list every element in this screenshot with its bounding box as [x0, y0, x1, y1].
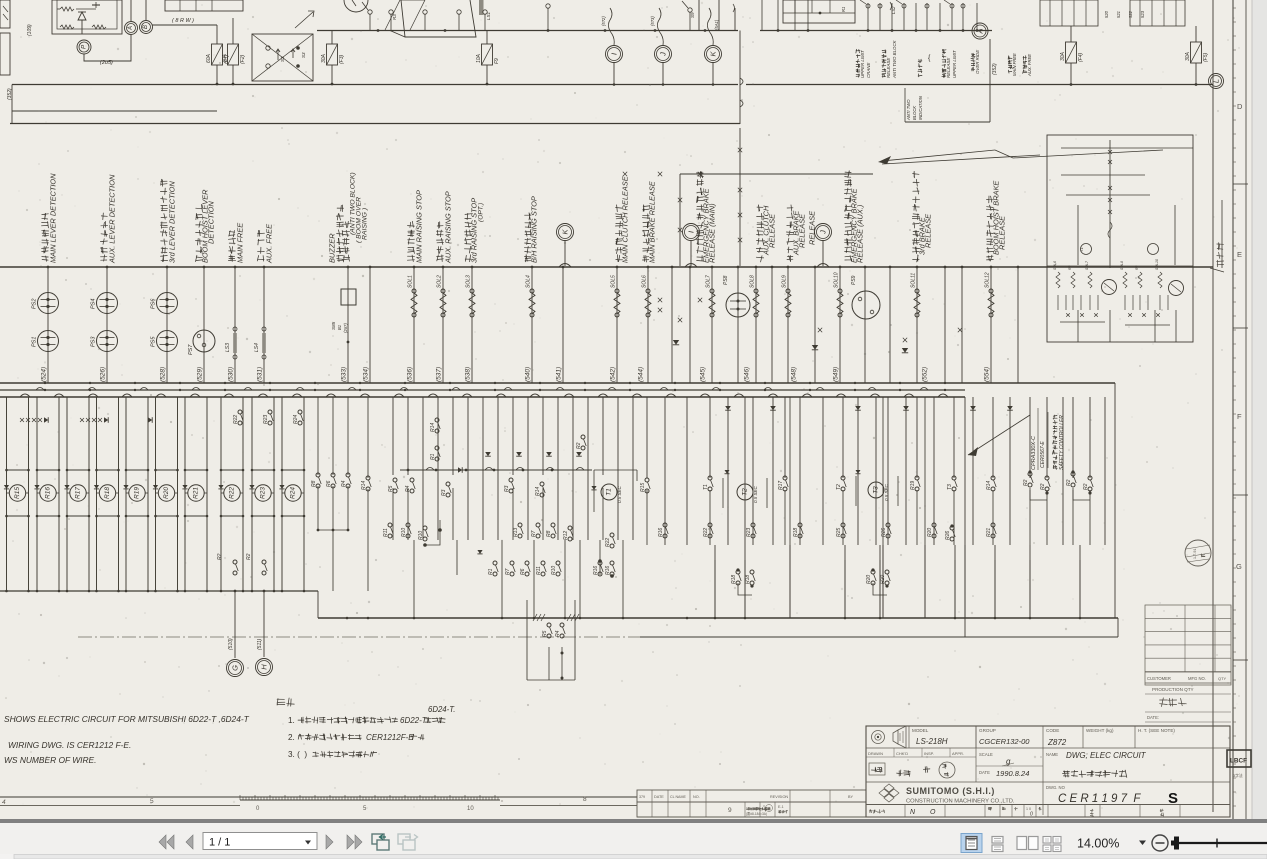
solenoid SOL4	[530, 289, 534, 293]
pressure switch PS8	[726, 293, 750, 317]
diode R20 flyback	[153, 485, 158, 489]
contact R10 low2	[423, 526, 427, 530]
contact R25 r2	[841, 523, 845, 527]
nav first-page button	[159, 835, 166, 849]
contact pair R20/R20	[871, 570, 875, 574]
contact R11 row3	[541, 561, 545, 565]
zone divider G/H	[1233, 659, 1248, 661]
diode mid D-b	[812, 345, 818, 350]
connector bus y618	[318, 617, 1118, 619]
top-right bus y31	[760, 30, 992, 32]
wire P loop	[84, 35, 131, 61]
solenoid SOL3	[470, 289, 474, 293]
contact R22 upper	[238, 410, 242, 414]
bus line y383	[0, 382, 1115, 384]
title block frame	[866, 726, 1230, 817]
subframe vertical x740 upper	[739, 128, 741, 266]
relay R20	[158, 485, 174, 501]
contact R5	[393, 478, 397, 482]
sub zigzag s1	[1056, 272, 1060, 288]
meter P	[77, 40, 91, 54]
contact R15 r	[645, 478, 649, 482]
nav prev-page button	[186, 835, 193, 849]
drop R6 column	[332, 530, 334, 591]
solenoid SOL7	[710, 289, 714, 293]
long bus y84	[12, 84, 738, 86]
contact R17 r	[783, 476, 787, 480]
hatch marks box	[533, 614, 537, 621]
contact T2 r	[841, 476, 845, 480]
subframe line y174	[680, 173, 873, 175]
diode cluster DA1	[20, 418, 24, 422]
page number box	[203, 833, 317, 850]
terminal A2	[972, 23, 988, 39]
switch LS-t5	[483, 10, 487, 14]
contact bank wires	[761, 0, 763, 31]
diodes row right y408	[725, 406, 731, 410]
pressure switch PS9	[852, 291, 880, 319]
diode T2	[725, 470, 730, 474]
relay block top right	[783, 0, 855, 23]
contact R4 b	[410, 478, 414, 482]
border tick marks	[1233, 7, 1236, 9]
diodes row y457	[485, 452, 491, 456]
svg-text:1 / 1: 1 / 1	[209, 837, 230, 849]
subframe vertical x680	[679, 174, 681, 266]
next-view icon (disabled)	[398, 834, 410, 844]
diode low mid	[477, 550, 482, 554]
bottom cells	[904, 805, 906, 818]
terminal I with pigtail	[608, 8, 614, 45]
contact R21 r2	[991, 523, 995, 527]
wire	[57, 8, 60, 10]
relay R17	[70, 485, 86, 501]
timer T1	[601, 484, 617, 500]
lower right verticals	[646, 397, 648, 478]
label col UPPER LIMIT RELEASE	[942, 74, 946, 78]
pressure switch PS1	[38, 331, 59, 352]
vertical wires upper band right	[647, 267, 649, 383]
border line y805 right	[500, 805, 637, 807]
diode R22 flyback	[218, 485, 223, 489]
switch S-t4	[457, 10, 461, 14]
wire F1/F2 tops	[216, 25, 218, 44]
contact R23 upper	[268, 410, 272, 414]
switch S-t1	[368, 10, 372, 14]
contact R2 H-col	[262, 560, 266, 564]
relay contact cluster G1	[1040, 0, 1098, 26]
terminal G	[227, 660, 244, 677]
sub box bus y266	[1047, 265, 1193, 267]
view mode continuous	[992, 837, 1003, 844]
limit switch LS4	[262, 327, 266, 331]
switch S-t2	[389, 10, 393, 14]
revision strip frame	[637, 790, 866, 802]
sumitomo logo diamond	[879, 784, 899, 802]
wire above A	[130, 0, 132, 21]
zoom dropdown caret	[1139, 841, 1146, 846]
buzzer S85 box	[341, 289, 356, 305]
label col ANTI TWO BLOCK RELEASE	[882, 73, 886, 77]
bus line y390	[0, 389, 965, 391]
sub zigzag s6	[1158, 272, 1162, 288]
view mode single (selected)	[961, 834, 982, 853]
lower right drop wires	[714, 545, 716, 618]
switch S-t3	[423, 10, 427, 14]
bus y111	[12, 110, 217, 112]
pointer arrow zigzag right	[995, 150, 1163, 158]
relay R19	[129, 485, 145, 501]
terminal I/J/K drop wires	[613, 63, 615, 85]
fuse F5 30A	[1191, 42, 1202, 63]
contact R5 box	[547, 623, 551, 627]
sub circle PS-s1	[1102, 280, 1117, 295]
capacitor C1	[95, 2, 97, 8]
signature 2	[923, 767, 930, 773]
pressure switch PS3	[97, 331, 118, 352]
terminal I mid	[683, 224, 700, 241]
diode R24 flyback	[279, 485, 284, 489]
limit switch LS3	[233, 327, 237, 331]
view mode facing	[1017, 837, 1027, 850]
label col BOOM HOIST BRAKE RELEASE	[987, 255, 994, 261]
switch S-t6	[546, 4, 550, 8]
label col MAIN BRAKE RELEASE	[642, 255, 648, 262]
revision strip lower cells	[637, 802, 866, 817]
solenoid SOL2	[441, 289, 445, 293]
viewer gutter right	[1252, 0, 1267, 822]
contact R8 low	[551, 523, 555, 527]
vertical wires upper band left	[47, 267, 49, 383]
bottom small cells row	[866, 816, 1230, 818]
chain line y637	[78, 636, 1118, 638]
x-marks right band	[658, 298, 662, 302]
label col AUX CLUTCH RELEASE	[756, 256, 763, 262]
zener diode D1	[78, 12, 86, 20]
resistor R-b	[60, 25, 74, 29]
speaker icon	[872, 731, 885, 744]
page border x1246	[1245, 0, 1247, 822]
label col 3rd RAISING STOP	[465, 255, 471, 262]
mid sub-bus y470	[400, 469, 592, 471]
sub zigzag s3	[1088, 272, 1092, 288]
drawing inner border x1213	[1212, 0, 1214, 812]
relay R16	[40, 485, 56, 501]
contact R10 low	[406, 523, 410, 527]
title block row3 line	[866, 804, 1230, 806]
diode R18 flyback	[94, 485, 99, 489]
leader arrow	[882, 155, 1040, 164]
sub zigzag s5	[1138, 272, 1142, 288]
sub cells line	[637, 816, 866, 818]
label col 3rd LEVER DETECTION	[160, 255, 167, 262]
sub verticals lower	[1057, 295, 1059, 310]
nav next-page button	[326, 835, 333, 849]
junction dots y470	[407, 469, 410, 472]
contact R4 mid	[346, 473, 350, 477]
solenoid SOL1	[412, 289, 416, 293]
signature 1	[897, 770, 903, 776]
contact R22 r2	[708, 523, 712, 527]
DWG NO cell	[1042, 782, 1044, 815]
diode R15 flyback	[4, 485, 9, 489]
contact R2 ra	[1028, 472, 1032, 476]
sub box center wire	[1109, 140, 1111, 268]
diode mid D-c	[902, 348, 908, 353]
svg-text:14.00%: 14.00%	[1077, 837, 1119, 851]
contact R7 low	[536, 523, 540, 527]
revision note 変更前	[1217, 260, 1224, 267]
contact R23 r2	[751, 523, 755, 527]
diode R16 flyback	[34, 485, 39, 489]
dots y618	[346, 617, 349, 620]
pressure switch PS7	[193, 330, 215, 352]
timer T2	[737, 484, 753, 500]
fuse F3 30A	[327, 44, 338, 65]
label col AUX RAISING STOP	[437, 255, 444, 262]
contact R26 r3	[950, 526, 954, 530]
contact T3 r	[952, 476, 956, 480]
label col BOOM HOIST LEVER DETECTION	[196, 255, 203, 261]
bus line y397	[0, 396, 965, 398]
terminal J with pigtail	[657, 8, 663, 45]
contact T1 r	[708, 476, 712, 480]
diode cluster DA2	[80, 418, 84, 422]
sub zigzag s4	[1123, 272, 1127, 288]
terminal K with pigtail	[707, 8, 713, 45]
diode R21 flyback	[182, 485, 187, 489]
anti-two-block trapezoid frame	[401, 0, 476, 37]
label col over-wind display	[918, 74, 922, 77]
lower mid drop wires	[413, 540, 415, 575]
right cluster drop wires	[714, 560, 716, 618]
diode T1	[591, 486, 596, 490]
label col B/H RAISING STOP	[525, 255, 532, 262]
pointer arrow to frame	[882, 150, 995, 161]
long bus y84 right part	[746, 84, 1213, 86]
contact R4 box	[560, 623, 564, 627]
relay R24	[285, 485, 301, 501]
contact R2 G-col	[233, 560, 237, 564]
bus y591	[0, 590, 318, 592]
top relay box	[165, 0, 243, 11]
contact R6 row3	[525, 561, 529, 565]
label col reset OVER RIDE	[971, 67, 974, 71]
switch slants	[860, 0, 866, 4]
LBCF box	[1227, 750, 1251, 767]
zone divider D/E	[1233, 183, 1248, 185]
label col MAIN FREE	[228, 255, 235, 262]
resistor R-c	[92, 25, 106, 29]
label col EMERGENCY BRAKE RELEASE MAIN	[697, 256, 704, 261]
prev-view icon	[372, 834, 384, 844]
title block row2 line	[866, 781, 1230, 783]
gauge circle	[344, 0, 368, 12]
relay R21	[188, 485, 204, 501]
triangle wires	[385, 0, 400, 30]
solenoid SOL5	[615, 289, 619, 293]
label col 3rd BRAKE RELEASE	[913, 255, 920, 262]
contact R3 c	[509, 478, 513, 482]
contact R10 row3	[556, 561, 560, 565]
wire above B	[145, 0, 147, 20]
wire B to bus	[152, 24, 217, 26]
corner x318	[317, 591, 319, 618]
inspection stamp	[1185, 540, 1211, 566]
arrow sketch	[295, 11, 314, 28]
customer table grid	[1145, 605, 1231, 685]
left vertical edge	[11, 85, 13, 124]
bus hops y383-397	[20, 394, 30, 397]
toolbar bottom strip	[0, 854, 1267, 859]
solenoid SOL12	[989, 289, 993, 293]
contact R16 pair	[598, 561, 602, 565]
terminal J mid	[815, 224, 832, 241]
pressure switch PS5	[157, 331, 178, 352]
contact circles	[866, 4, 870, 8]
relay contact cluster G2	[1130, 0, 1185, 26]
resistor R-a	[60, 7, 74, 11]
top bus wire y31	[317, 30, 738, 32]
extra top wires	[698, 0, 700, 31]
terminal H wire	[263, 591, 265, 657]
bus y591 junction dots	[5, 590, 8, 593]
contact R6 mid	[331, 473, 335, 477]
contact R14 mid	[366, 476, 370, 480]
solenoid SOL11	[915, 289, 919, 293]
label col MAIN LEVER DETECTION	[42, 256, 49, 261]
inner frame right border x740	[739, 31, 741, 125]
switch S-t7	[688, 8, 692, 12]
zone divider E/F	[1233, 327, 1248, 329]
contact R11 low	[388, 523, 392, 527]
relay R18	[99, 485, 115, 501]
contact R2 rc	[1071, 472, 1075, 476]
contact R2 rd	[1088, 476, 1092, 480]
diode on sub-bus	[458, 467, 462, 473]
contact R14 r	[991, 476, 995, 480]
sub relay T1s	[1081, 244, 1092, 255]
contact R18 r2	[798, 523, 802, 527]
solenoid SOL8	[754, 289, 758, 293]
contact R13 low	[518, 523, 522, 527]
diode R23 flyback	[249, 485, 254, 489]
terminal L	[1209, 74, 1224, 89]
drawn stamp box	[869, 763, 885, 775]
thick sensor bar	[479, 0, 484, 15]
sub box inner rect	[1077, 205, 1079, 265]
terminal G wire	[234, 591, 236, 658]
x-marks on frame	[698, 172, 702, 176]
stamp 備付図	[1160, 698, 1168, 707]
note JP header	[277, 699, 285, 705]
bus hops	[559, 264, 571, 268]
indicator box verticals	[989, 39, 991, 122]
frame bottom y637 right	[640, 636, 1118, 638]
terminal A	[125, 22, 138, 35]
signature stamp circle	[939, 762, 955, 778]
sub relay J-s	[1148, 244, 1159, 255]
contact R24 upper	[298, 410, 302, 414]
terminal B	[140, 21, 153, 34]
pointer to controller	[968, 415, 1030, 455]
customer header row	[1145, 671, 1231, 673]
junction dots bus y267	[47, 266, 50, 269]
zone divider F/G	[1233, 494, 1248, 496]
sub circuit box frame	[1047, 135, 1193, 342]
diode T3	[856, 470, 861, 474]
right cluster frame verticals	[789, 397, 791, 618]
relay R15	[9, 485, 25, 501]
sub box line h3	[1066, 194, 1150, 196]
contact R3 b	[446, 482, 450, 486]
zoom slider track	[1179, 842, 1267, 844]
contact R7 row3	[510, 561, 514, 565]
label col CRANE UPPER LIMIT	[856, 74, 860, 77]
solenoid SOL6	[646, 289, 650, 293]
contact R20 r2	[932, 523, 936, 527]
label col AUX FREE	[257, 256, 264, 262]
contact R16 r2	[663, 523, 667, 527]
solenoid SOL10	[838, 289, 842, 293]
title block row1 line	[866, 747, 1230, 749]
timer T3	[868, 482, 884, 498]
contact R8 mid	[316, 473, 320, 477]
fuse F4 30A	[1066, 42, 1077, 63]
row2 internal lines	[866, 756, 976, 758]
label aux free	[1023, 70, 1027, 74]
zoom slider handle	[1174, 837, 1179, 850]
label col EMERGENCY BRAKE RELEASE AUX	[845, 256, 852, 261]
contact pair R18/R18	[736, 570, 740, 574]
sub bottom drops	[1077, 310, 1079, 342]
zoom slider tick	[1216, 839, 1218, 848]
junction dots y31 right	[777, 29, 780, 32]
amplifier box U1	[52, 0, 122, 34]
battery crossover box S2 S3	[252, 34, 313, 81]
label col AUX BRAKE RELEASE	[787, 256, 793, 262]
terminal H	[256, 659, 273, 676]
contact R19 r	[915, 476, 919, 480]
relay row verticals	[6, 397, 8, 591]
label main free	[1008, 70, 1011, 73]
page border x1233	[1232, 0, 1234, 822]
zoom out button	[1152, 835, 1168, 851]
sub zigzag s2	[1071, 272, 1075, 288]
border line y797	[0, 796, 637, 798]
sub diode row	[1066, 313, 1070, 317]
fuse F1 60A	[212, 44, 223, 65]
bus junction dots	[44, 382, 46, 384]
fuse F2 30A	[228, 44, 239, 65]
sub box line h1	[1061, 147, 1193, 149]
contact R14 c	[540, 482, 544, 486]
relay R22	[224, 485, 240, 501]
junction dots top bus	[377, 29, 380, 32]
contact R26 r2	[886, 523, 890, 527]
label col AUX LEVER DETECTION	[101, 255, 107, 261]
bus y123	[10, 123, 740, 125]
date row	[1145, 711, 1231, 713]
contact R12 low	[568, 526, 572, 530]
pigtail LS marks	[890, 2, 892, 10]
scale ruler	[240, 799, 500, 801]
lower box x527-575	[526, 600, 528, 680]
label col MAIN RAISING STOP	[407, 255, 414, 261]
label col MAIN CLUTCH RELEASE	[616, 255, 623, 262]
nav last-page button	[347, 835, 354, 849]
terminal K mid	[557, 224, 574, 241]
